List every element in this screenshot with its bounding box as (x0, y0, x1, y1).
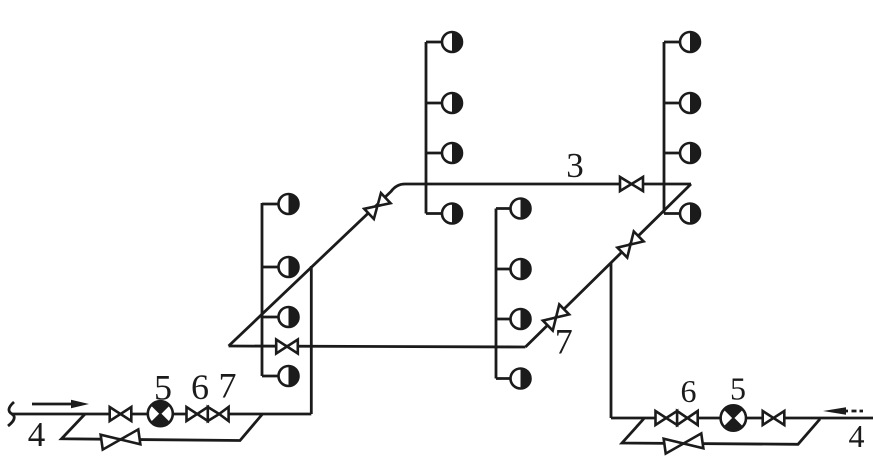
svg-text:4: 4 (849, 418, 865, 454)
pipe: branch riser 4 (664, 42, 680, 214)
butterfly valve 6 and valve right (656, 411, 698, 425)
pipe: ring main bottom line (229, 346, 526, 347)
sprinkler head R4-1 (680, 32, 700, 52)
svg-text:6: 6 (191, 367, 209, 407)
sprinkler head R2-4 (442, 204, 462, 224)
pipe: branch riser 1 (262, 203, 279, 376)
sprinkler head R2-3 (442, 143, 462, 163)
valve 7 on right diagonal (543, 304, 569, 330)
pipe: branch riser 3 (496, 209, 510, 379)
pipe: right bypass loop (622, 419, 820, 445)
sprinkler head R2-1 (442, 32, 462, 52)
gate valve right supply (763, 411, 785, 425)
gate valve left supply (110, 407, 132, 421)
gate valve on bottom ring line (276, 340, 298, 354)
sprinkler head R1-2 (279, 257, 299, 277)
sprinkler head R1-1 (279, 194, 299, 214)
valve on right diagonal upper (617, 231, 643, 257)
svg-text:3: 3 (566, 146, 584, 185)
pump 5 right (721, 405, 746, 430)
sprinkler head R3-2 (511, 259, 531, 279)
sprinkler head R4-4 (680, 204, 700, 224)
pipe: ring main right diagonal (525, 184, 691, 347)
pipe: left supply main (11, 413, 311, 416)
bypass valve right (664, 433, 704, 453)
svg-text:6: 6 (681, 373, 697, 409)
sprinkler head R1-3 (279, 307, 299, 327)
flow arrow right (32, 403, 74, 406)
sprinkler head R3-3 (511, 309, 531, 329)
pipe: ring main left diagonal and top line (229, 184, 691, 346)
sprinkler head R4-2 (680, 93, 700, 113)
svg-text:7: 7 (555, 322, 573, 362)
pipe: right supply main (611, 417, 873, 420)
svg-text:5: 5 (154, 368, 172, 408)
flow arrow left dashed (844, 410, 863, 413)
sprinkler head R2-2 (442, 93, 462, 113)
svg-text:5: 5 (730, 371, 746, 407)
sprinkler head R4-3 (680, 143, 700, 163)
butterfly valve 6 and valve 7 left (187, 407, 229, 421)
svg-text:7: 7 (219, 366, 237, 406)
bypass valve left (101, 429, 141, 449)
sprinkler head R3-1 (511, 199, 531, 219)
pipe: branch riser 2 (426, 42, 442, 214)
pipe: right feed riser (610, 263, 613, 418)
svg-text:4: 4 (28, 415, 46, 454)
pump 5 left (148, 401, 173, 426)
gate valve 3 on top ring line (620, 177, 643, 191)
pipe: left bypass loop (62, 414, 263, 441)
sprinkler head R1-4 (279, 366, 299, 386)
pipe break mark (8, 402, 14, 426)
sprinkler head R3-4 (511, 369, 531, 389)
valve on left diagonal (364, 193, 390, 219)
pipe: left feed riser (310, 266, 313, 414)
